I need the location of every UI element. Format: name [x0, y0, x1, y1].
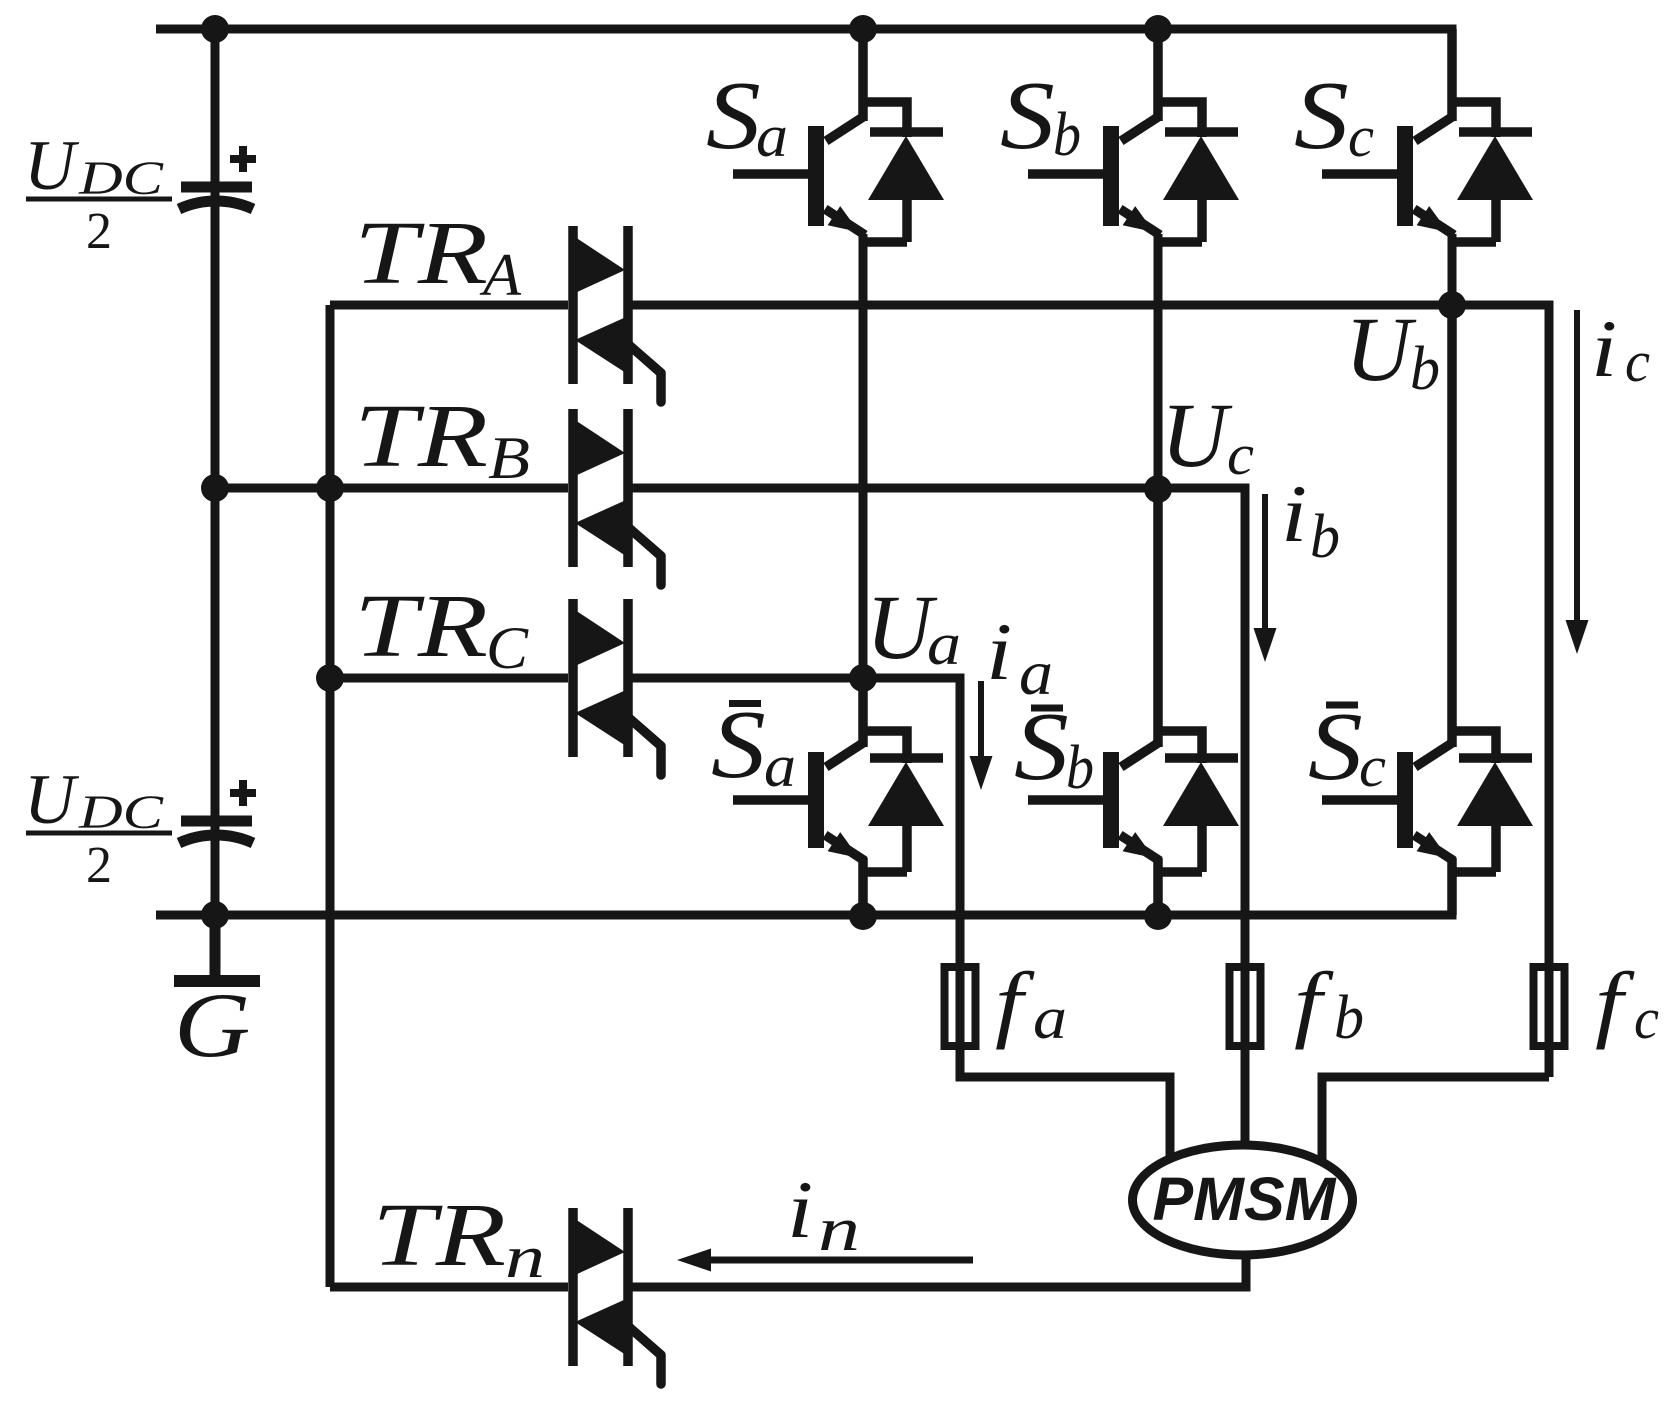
label i_a: [986, 607, 1053, 708]
svg-text:S: S: [706, 63, 761, 170]
wire TR_B line and node U_c tap to fuse f_b: [215, 488, 1245, 1145]
svg-text:U: U: [1345, 298, 1417, 400]
svg-text:n: n: [505, 1224, 545, 1290]
transistor S-bar_a (lower IGBT with antiparallel diode): [733, 678, 944, 915]
transistor S_b (upper IGBT with antiparallel diode): [1028, 29, 1239, 242]
fuse f_c: [1534, 967, 1565, 1046]
svg-text:i: i: [787, 1165, 813, 1256]
label TR_n: [372, 1186, 545, 1290]
capacitor C2 lower DC-link: [179, 780, 256, 843]
capacitor C1 upper DC-link: [179, 146, 256, 209]
svg-text:a: a: [764, 733, 796, 799]
label i_b: [1281, 469, 1340, 571]
junction bottom rail / S-bar_a: [849, 902, 877, 930]
svg-text:c: c: [1634, 986, 1659, 1051]
label S-bar_c: [1308, 694, 1386, 801]
wire phase b leg: [1154, 234, 1163, 488]
label f_c: [1595, 954, 1659, 1051]
svg-text:f: f: [1595, 954, 1635, 1050]
svg-text:TR: TR: [354, 577, 488, 676]
svg-text:S: S: [1294, 63, 1349, 170]
label upper value U_DC/2: [24, 127, 172, 260]
transistor S-bar_c (lower IGBT with antiparallel diode): [1322, 305, 1533, 915]
triac TR_A (triac): [573, 226, 661, 402]
svg-text:S: S: [1308, 694, 1363, 801]
label lower value U_DC/2: [24, 761, 172, 894]
svg-text:i: i: [1281, 469, 1307, 560]
current arrow i_b: [1254, 494, 1277, 662]
svg-text:G: G: [174, 975, 250, 1076]
junction triac bus / TR_B: [316, 474, 344, 502]
junction top rail / S_a: [849, 15, 877, 43]
svg-text:a: a: [1033, 985, 1067, 1051]
svg-text:C: C: [486, 615, 529, 681]
wire triac bus vertical: [326, 305, 335, 1287]
svg-text:TR: TR: [372, 1186, 506, 1285]
svg-text:2: 2: [86, 837, 112, 894]
label node U_b: [1345, 298, 1440, 403]
wire TR_C line and node U_a tap to fuse f_a: [330, 678, 1170, 1160]
transistor S_c (upper IGBT with antiparallel diode): [1322, 29, 1533, 242]
transistor S-bar_b (lower IGBT with antiparallel diode): [1028, 488, 1239, 915]
fuse f_a: [945, 967, 976, 1046]
ground G symbol: [174, 915, 260, 981]
wire neutral line TR_n to PMSM: [330, 1253, 1246, 1287]
fuse f_b: [1230, 967, 1261, 1046]
svg-text:b: b: [1066, 734, 1094, 802]
label i_c: [1591, 304, 1650, 395]
label S_a: [706, 63, 788, 170]
label f_b: [1294, 954, 1364, 1052]
current arrow i_a: [970, 681, 993, 790]
current arrow i_n (neutral, pointing left): [677, 1249, 973, 1272]
svg-text:c: c: [1348, 104, 1374, 169]
junction top rail / S_b: [1144, 15, 1172, 43]
label node U_c: [1161, 384, 1254, 487]
label S-bar_b: [1014, 694, 1094, 802]
svg-text:b: b: [1334, 984, 1364, 1052]
label TR_A: [354, 204, 521, 308]
label f_a: [995, 954, 1067, 1051]
junction triac bus / TR_C: [316, 664, 344, 692]
svg-text:n: n: [818, 1196, 860, 1264]
wire bottom DC- rail: [156, 858, 1452, 915]
svg-text:S: S: [711, 692, 766, 799]
svg-text:f: f: [1294, 954, 1334, 1050]
svg-text:i: i: [1591, 304, 1617, 395]
wire TR_A line and node U_b tap to fuse f_c: [330, 305, 1549, 1160]
junction midpoint / TR_B: [201, 474, 229, 502]
triac TR_n (triac): [573, 1208, 661, 1384]
triac TR_B (triac): [573, 409, 661, 585]
svg-text:b: b: [1310, 503, 1340, 571]
junction top rail / C1: [201, 15, 229, 43]
svg-text:b: b: [1053, 101, 1081, 169]
wire phase a leg: [859, 234, 868, 678]
label node U_a: [866, 576, 961, 678]
wire top DC+ rail: [156, 29, 1452, 121]
svg-text:S: S: [1000, 63, 1055, 170]
junction bottom rail / C2 / ground: [201, 901, 229, 929]
svg-text:U: U: [24, 761, 80, 839]
svg-text:TR: TR: [354, 204, 488, 303]
svg-text:f: f: [995, 954, 1035, 1050]
svg-text:U: U: [1161, 384, 1233, 486]
transistor S_a (upper IGBT with antiparallel diode): [733, 29, 944, 242]
svg-text:c: c: [1625, 329, 1650, 394]
label i_n: [787, 1165, 860, 1264]
svg-text:c: c: [1359, 734, 1386, 799]
motor PMSM: [1133, 1145, 1353, 1255]
wire phase c leg: [1448, 234, 1457, 305]
svg-text:a: a: [1019, 637, 1053, 708]
svg-text:i: i: [986, 607, 1012, 698]
svg-text:2: 2: [86, 203, 112, 260]
label S-bar_a: [711, 692, 796, 799]
label S_b: [1000, 63, 1081, 170]
junction node U_c: [1144, 475, 1172, 503]
label TR_B: [354, 387, 530, 491]
current arrow i_c: [1566, 310, 1589, 654]
svg-text:b: b: [1410, 335, 1440, 403]
triac TR_C (triac): [573, 599, 661, 775]
label S_c: [1294, 63, 1374, 170]
svg-text:a: a: [756, 103, 788, 169]
svg-text:TR: TR: [354, 387, 488, 486]
svg-text:PMSM: PMSM: [1153, 1165, 1337, 1233]
junction node U_a: [849, 664, 877, 692]
svg-text:a: a: [927, 611, 961, 677]
junction bottom rail / S-bar_b: [1144, 902, 1172, 930]
svg-text:A: A: [479, 242, 522, 308]
svg-text:c: c: [1227, 422, 1254, 487]
wire DC midpoint vertical (capacitor chain): [211, 29, 220, 975]
svg-text:B: B: [488, 425, 530, 491]
junction node U_b: [1438, 291, 1466, 319]
svg-text:U: U: [24, 127, 80, 205]
label TR_C: [354, 577, 529, 681]
